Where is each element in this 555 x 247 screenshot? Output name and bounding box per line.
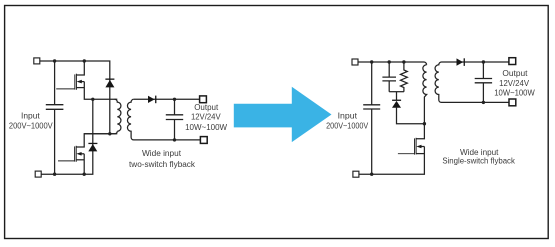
svg-text:Wide input: Wide input xyxy=(142,149,182,158)
svg-text:Input: Input xyxy=(21,112,41,121)
svg-text:Input: Input xyxy=(338,112,358,121)
svg-text:200V~1000V: 200V~1000V xyxy=(9,121,53,130)
svg-text:10W~100W: 10W~100W xyxy=(494,89,535,98)
svg-text:200V~1000V: 200V~1000V xyxy=(326,122,369,131)
svg-text:Output: Output xyxy=(502,69,528,78)
svg-text:10W~100W: 10W~100W xyxy=(185,123,227,132)
svg-text:Output: Output xyxy=(194,103,219,112)
svg-text:Single-switch flyback: Single-switch flyback xyxy=(442,156,515,165)
svg-text:12V/24V: 12V/24V xyxy=(499,79,530,88)
svg-text:12V/24V: 12V/24V xyxy=(191,112,221,121)
svg-text:two-switch flyback: two-switch flyback xyxy=(129,160,196,169)
